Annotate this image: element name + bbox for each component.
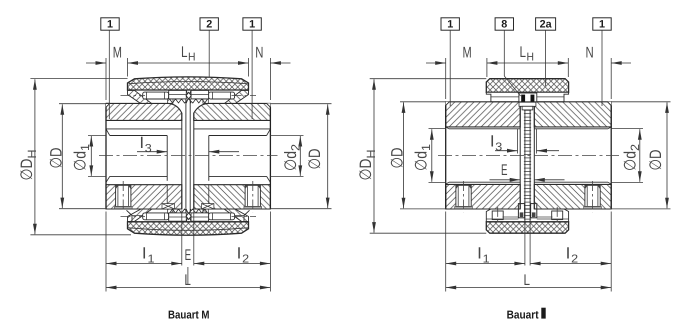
svg-text:3: 3 — [145, 143, 152, 155]
svg-text:2a: 2a — [540, 19, 553, 31]
callout 1 right — [243, 18, 261, 30]
svg-text:1: 1 — [483, 254, 490, 266]
svg-text:M: M — [113, 44, 122, 61]
dimension phi D right — [270, 103, 331, 105]
center wedge top — [186, 90, 191, 103]
callout 1 right — [593, 18, 611, 30]
svg-text:1: 1 — [447, 19, 453, 31]
dimension l1 — [446, 263, 525, 265]
jaw teeth bottom — [170, 209, 208, 213]
dimension l1 — [106, 263, 182, 265]
hub 1 right flange — [194, 103, 271, 120]
hub 1 left lower flange — [446, 184, 521, 209]
l3 dimension — [517, 129, 519, 154]
dimension phi d1 — [429, 128, 446, 130]
svg-text:1: 1 — [107, 19, 113, 31]
bottom lip channel — [127, 210, 250, 222]
svg-text:∅D: ∅D — [388, 147, 406, 168]
jaw cross right — [202, 204, 214, 209]
l3 dimension — [137, 151, 167, 153]
hub 1 left lower flange — [106, 185, 182, 209]
svg-text:l: l — [490, 134, 494, 151]
callout 2a — [536, 18, 556, 30]
dimension phi D left — [400, 101, 446, 103]
dimension N — [567, 58, 569, 77]
callout 1 left — [101, 18, 119, 30]
dimension LH — [128, 62, 249, 64]
svg-text:M: M — [463, 44, 472, 61]
dimension L — [446, 287, 612, 289]
hub 1 left bore — [106, 129, 110, 136]
svg-text:2: 2 — [289, 144, 303, 151]
lower sleeve crosshatch — [486, 222, 568, 233]
svg-text:2: 2 — [628, 144, 642, 151]
dimension phi d1 — [88, 134, 106, 136]
dimension phi D right — [611, 101, 670, 103]
hub 1 right lower flange — [534, 184, 611, 209]
leader 1 right — [601, 30, 603, 106]
lower jaw right — [552, 211, 563, 220]
svg-text:E: E — [501, 162, 508, 179]
svg-text:E: E — [185, 247, 192, 264]
centerline — [438, 155, 619, 157]
seal blocks — [521, 95, 525, 102]
membrane flange bottom — [169, 213, 187, 221]
hub 1 left outline — [105, 107, 107, 209]
sleeve 2 top band — [128, 77, 249, 90]
svg-text:L: L — [181, 44, 188, 61]
sleeve 2 bottom band — [128, 222, 249, 235]
hub 1 right chamfer — [608, 102, 612, 106]
dimension L — [106, 287, 270, 289]
hub 1 right outline — [610, 105, 612, 209]
leader 2 — [208, 30, 210, 77]
dimension l2 — [194, 263, 271, 265]
screw axis dash-dot top — [121, 95, 146, 97]
svg-text:8: 8 — [501, 19, 507, 31]
callout 8 — [495, 18, 513, 30]
sleeve lip wedges top — [128, 90, 152, 103]
svg-text:Bauart M: Bauart M — [168, 309, 210, 321]
leader 1 left — [449, 30, 451, 106]
sleeve 2a lip — [486, 92, 568, 102]
svg-text:2: 2 — [242, 254, 249, 266]
hub 1 left outline — [445, 105, 447, 209]
seal housing — [519, 93, 537, 102]
dimension phi d2 — [270, 134, 303, 136]
hub 1 left barrel step — [106, 128, 182, 130]
svg-text:Bauart: Bauart — [507, 309, 539, 321]
svg-text:∅D: ∅D — [47, 147, 65, 168]
screw top left — [143, 92, 169, 99]
callout 2 — [200, 18, 218, 30]
leader 1 left — [108, 30, 110, 119]
jaw cross left — [162, 204, 174, 209]
jaw teeth top — [170, 99, 208, 103]
screw top right — [209, 92, 235, 99]
dimension M — [445, 58, 447, 99]
svg-text:∅D: ∅D — [357, 158, 375, 180]
svg-text:l: l — [478, 245, 482, 262]
center wedge bottom — [186, 209, 191, 221]
extension lines bottom — [105, 212, 107, 292]
svg-text:l: l — [566, 245, 570, 262]
hub 1 left flange — [446, 102, 521, 127]
svg-text:∅d: ∅d — [282, 151, 300, 171]
svg-text:∅d: ∅d — [412, 151, 430, 171]
dimension phi D_H — [30, 78, 127, 80]
hub 1 right flange — [534, 102, 611, 127]
hub 1 left chamfer — [106, 103, 110, 107]
svg-text:L: L — [524, 272, 531, 289]
bolt hole left — [456, 185, 471, 206]
lower sleeve channel — [486, 209, 568, 222]
hub 1 right lower flange — [194, 185, 271, 209]
sleeve lip wedges bottom — [128, 209, 153, 221]
dimension l2 — [530, 263, 611, 265]
screw bottom right — [209, 213, 235, 220]
svg-text:∅D: ∅D — [647, 149, 665, 170]
sleeve 2a band — [486, 79, 568, 93]
svg-text:∅d: ∅d — [621, 151, 639, 171]
collet steps — [519, 102, 536, 106]
bolt hole left — [116, 185, 131, 206]
hub 1 right bore — [267, 129, 271, 136]
screw axis dash-dot bottom — [121, 215, 146, 217]
svg-text:∅d: ∅d — [71, 151, 89, 171]
dimension LH — [487, 62, 568, 64]
svg-text:H: H — [527, 52, 535, 64]
dimension N — [248, 58, 250, 77]
svg-text:2: 2 — [571, 254, 578, 266]
hub 1 right chamfer — [267, 103, 271, 107]
leader 1 right — [251, 30, 253, 119]
svg-text:1: 1 — [419, 144, 433, 151]
svg-text:N: N — [255, 44, 263, 61]
dimension phi D_H — [370, 78, 487, 80]
hub 1 left flange — [106, 103, 182, 120]
svg-text:l: l — [142, 245, 146, 262]
hub 1 right bore — [608, 127, 611, 129]
leader 2a — [545, 30, 547, 86]
centerline — [99, 155, 278, 157]
hub 1 right outline — [269, 107, 271, 209]
svg-text:∅D: ∅D — [306, 148, 324, 169]
dimension phi D left — [59, 103, 106, 105]
callout 1 left — [441, 18, 459, 30]
svg-text:H: H — [188, 52, 196, 64]
svg-text:1: 1 — [78, 144, 92, 151]
membrane flange top — [169, 90, 187, 99]
svg-text:H: H — [25, 150, 39, 159]
svg-text:1: 1 — [249, 19, 255, 31]
svg-text:l: l — [237, 245, 241, 262]
hub 1 left chamfer — [446, 102, 450, 106]
svg-text:∅D: ∅D — [18, 158, 36, 180]
lower jaw left — [492, 211, 503, 220]
leader 8 — [503, 30, 505, 76]
bolt hole right — [585, 185, 600, 206]
screw bottom left — [143, 213, 169, 220]
rod nut — [518, 204, 524, 218]
svg-text:H: H — [364, 150, 378, 159]
dimension M — [105, 58, 107, 100]
svg-text:l: l — [140, 135, 144, 152]
svg-text:3: 3 — [495, 142, 502, 154]
membrane stem — [185, 99, 187, 213]
screw rod 8 — [524, 95, 526, 222]
bolt hole right — [245, 185, 260, 206]
svg-text:1: 1 — [148, 254, 155, 266]
svg-text:L: L — [184, 272, 191, 289]
svg-text:L: L — [520, 44, 527, 61]
hub 1 right barrel step — [194, 128, 271, 130]
dimension phi d2 — [611, 128, 643, 130]
hub 1 left bore — [446, 127, 449, 129]
extension lines bottom — [445, 212, 447, 292]
svg-text:1: 1 — [599, 19, 605, 31]
dimension E — [490, 179, 521, 181]
svg-text:N: N — [586, 44, 594, 61]
svg-text:2: 2 — [206, 19, 212, 31]
